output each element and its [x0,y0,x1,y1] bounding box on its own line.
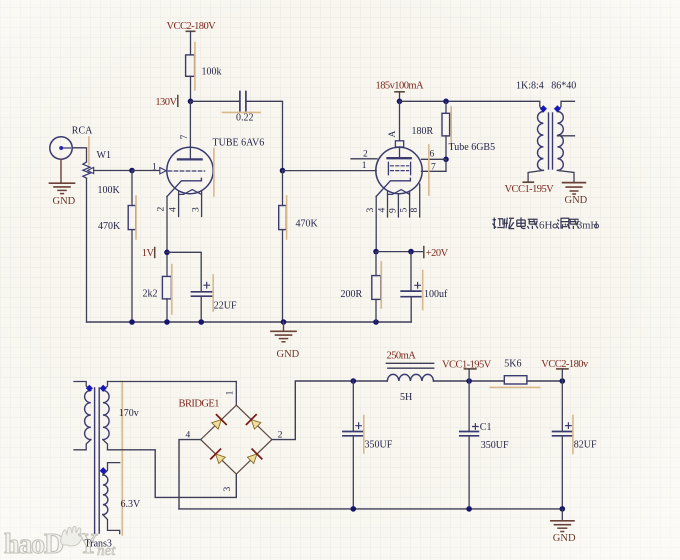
svg-text:7: 7 [431,162,436,172]
junction screen node [443,157,449,163]
polarity dot Trans3 6.3V [100,467,107,474]
wire 100k to node 130V [190,76,192,101]
svg-text:6: 6 [430,150,435,160]
capacitor C1 350UF [460,381,479,509]
junction grid node of V2 [280,168,286,174]
svg-text:5H: 5H [400,392,412,403]
junction wiper node [129,168,135,174]
net label +20V [424,247,449,260]
junction gnd bus x562 [560,506,566,512]
junction node 130V [188,99,194,105]
svg-text:250mA: 250mA [387,351,417,362]
junction VCC1 node [466,378,472,384]
svg-text:4: 4 [169,207,179,212]
junction gnd bus x353 [351,506,357,512]
svg-text:170v: 170v [119,408,139,419]
wire 170v top to bridge [108,381,237,383]
svg-text:350UF: 350UF [481,440,509,451]
svg-text:BRIDGE1: BRIDGE1 [179,399,220,410]
svg-text:0.22: 0.22 [236,113,254,124]
wire B+ rail to output transformer [400,101,544,111]
svg-text:VCC1-195V: VCC1-195V [505,184,555,195]
svg-text:Tube 6GB5: Tube 6GB5 [449,142,496,153]
power port VCC1-195V (psu) [442,359,492,381]
wire pot bottom to bus [86,178,88,322]
capacitor C 350UF first [343,381,364,509]
svg-text:9: 9 [388,208,398,213]
svg-text:2k2: 2k2 [143,289,158,300]
wire V2 pin2 stub [351,158,377,160]
svg-text:Trans3: Trans3 [85,538,112,549]
junction bus x201 [198,319,204,325]
top cap square V2 [395,141,403,147]
wire V2 anode top cap [399,101,401,141]
junction bus x132 [129,319,135,325]
svg-text:W1: W1 [97,150,111,161]
tube V2 pin 4 stub [387,191,389,217]
svg-text:GND: GND [565,195,588,206]
wire node to C 0.22 [191,100,240,102]
svg-text:5: 5 [400,208,410,213]
ground symbol psu [551,509,574,532]
tube V2 pin 5 stub [409,192,411,218]
resistor R 180R [442,101,451,159]
tan mark Trans3 [121,382,123,536]
svg-text:100uf: 100uf [424,289,448,300]
svg-text:GND: GND [553,533,576,544]
svg-text:1K:8:4 86*40: 1K:8:4 86*40 [516,81,576,92]
note text chinese: 初级电感6H。漏感3mH。 [493,217,538,229]
svg-text:100K: 100K [98,185,121,196]
power tube V2 Tube 6GB5 [376,145,429,196]
polarity dot T1 secondary [554,105,561,112]
output transformer T1 primary winding [528,112,543,183]
wire bridge pin2 to filter [272,381,387,440]
junction bus x376 [373,319,379,325]
polarity dot Trans3 170v [100,385,107,392]
svg-text:1: 1 [362,161,367,171]
junction filter input [351,378,357,384]
diode D1 top-left [210,415,226,431]
svg-text:6H: 6H [539,220,553,232]
wire node to V1 grid arrow [132,170,160,172]
svg-text:3: 3 [223,487,233,492]
svg-text:22UF: 22UF [214,301,237,312]
svg-text:185v100mA: 185v100mA [376,81,425,92]
junction cathode node 1V [164,250,170,256]
diode D2 top-right [246,415,262,431]
wire V2 cathode pin3 down [375,196,377,251]
watermark haoDIY.net [4,527,116,560]
wire choke to VCC1 node [434,380,505,382]
tan mark W1 [88,137,90,165]
ground symbol under RCA [50,159,75,193]
svg-text:470K: 470K [98,221,121,232]
polarity dot T1 primary [540,105,547,112]
Trans3 secondary 170v winding [103,382,109,450]
wire pin6 to pin7 link [445,159,447,171]
power port VCC2-180V [167,21,217,55]
wire C 0.22 to right riser [246,101,283,170]
svg-text:130V: 130V [155,97,177,108]
svg-text:2: 2 [157,207,167,212]
svg-text:180R: 180R [412,126,434,137]
wire grid node to tube V2 pin1 [283,170,377,172]
SECTIONS [50,21,412,360]
net label 130V [155,96,177,109]
svg-text:C1: C1 [480,422,492,433]
junction cathode node V2 [373,249,379,255]
junction gnd bus x469 [466,506,472,512]
svg-text:2: 2 [363,150,368,160]
resistor R 470K right [279,171,287,322]
Trans3 secondary 6.3V winding [103,463,120,534]
output transformer T1 core [549,113,553,169]
capacitor C 82UF [553,381,573,509]
svg-text:200R: 200R [341,289,363,300]
svg-text:4: 4 [377,208,387,213]
svg-text:7: 7 [180,135,190,140]
wire V2 pin6 [422,158,447,160]
power port VCC1-195V (transformer) [505,182,555,195]
tube V2 pin 9 stub [397,194,399,217]
svg-text:8: 8 [410,208,420,213]
resistor R 470K left [128,171,136,323]
junction bus x283 [281,319,287,325]
wire cathode node right [376,251,423,253]
wire RCA to pot [72,148,86,162]
junction B+ node [397,99,403,105]
wire 5K6 to VCC2 node [527,380,562,382]
svg-text:3: 3 [366,208,376,213]
power port VCC2-180v (psu) [541,359,589,381]
ground symbol T1 secondary [563,183,586,194]
svg-text:1V: 1V [142,248,155,259]
wire V2 pin7 [422,170,447,172]
connector J RCA [50,137,72,159]
tube V1 anode wire pin 7 [189,101,191,159]
Trans3 core [95,388,100,533]
net label 185v100mA [376,81,425,102]
wire ground bus stage1 [87,321,412,323]
wire wiper to grid node [94,170,132,172]
resistor R 2k2 [162,265,171,315]
svg-text:+20V: +20V [426,248,449,259]
svg-text:haoD: haoD [4,529,63,560]
op tube V1 TUBE 6AV6 [160,147,214,196]
wire bridge pin4 to ground bus [179,440,201,509]
wire bridge pin1 riser [235,382,237,406]
capacitor C 100uf [401,252,423,322]
svg-text:3: 3 [192,207,202,212]
svg-text:RCA: RCA [72,126,93,137]
capacitor C 22UF [192,275,214,322]
resistor R 100k [186,43,195,91]
inductor L 5H [386,363,433,381]
svg-text:6.3V: 6.3V [121,499,142,510]
net label 1V [142,248,155,260]
svg-text:VCC2-180V: VCC2-180V [167,21,217,32]
ground symbol mid [271,322,296,342]
svg-text:3mH: 3mH [577,221,598,232]
junction 180R top [443,99,449,105]
wire V1 cathode pin2 to bus [166,196,168,276]
svg-text:5K6: 5K6 [504,359,521,370]
svg-text:GND: GND [277,349,300,360]
svg-text:100k: 100k [202,67,222,78]
svg-text:A: A [388,131,398,138]
wire psu ground bus [179,508,562,510]
diode D3 bottom-left [211,449,227,465]
wire 1V node to 22UF [167,252,201,291]
resistor R 200R [372,252,382,322]
svg-text:TUBE 6AV6: TUBE 6AV6 [213,138,265,149]
junction 100uf top [408,249,414,255]
svg-text:470K: 470K [296,219,319,230]
polarity dot Trans3 primary [86,385,93,392]
svg-text:GND: GND [53,196,76,207]
tube V2 pin 8 stub [419,184,421,217]
power transformer Trans3 primary winding [74,382,91,450]
rectifier D BRIDGE1 outline [201,405,272,474]
potentiometer W1 [83,162,94,178]
output transformer T1 secondary winding [557,101,574,182]
capacitor C 0.22 [223,92,261,113]
svg-text:350UF: 350UF [365,440,393,451]
wire 170v bottom to bridge pin3 [108,450,237,498]
svg-text:82UF: 82UF [574,440,597,451]
svg-text:1: 1 [226,390,236,395]
resistor R 5K6 [490,376,539,388]
tube V1 pin 4 stub [178,191,180,217]
junction bus x167 [164,319,170,325]
tube V1 pin 3 stub [201,191,203,217]
diode D4 bottom-right [246,449,262,465]
junction VCC2 node [560,378,566,384]
